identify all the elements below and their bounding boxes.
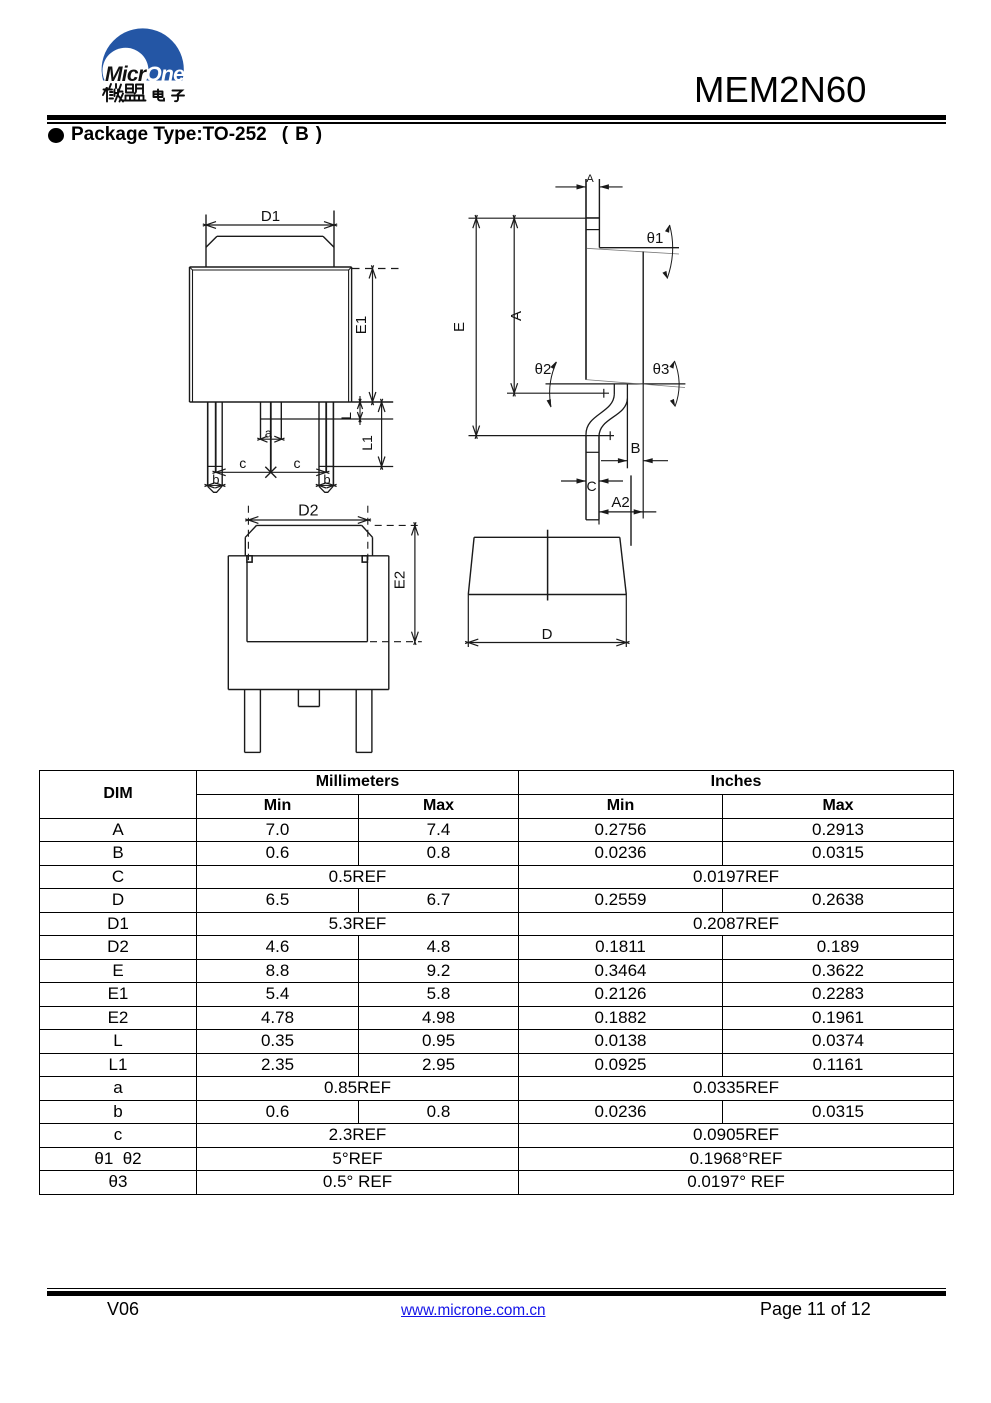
svg-text:b: b	[212, 472, 219, 487]
svg-text:θ2: θ2	[535, 361, 552, 378]
svg-text:B: B	[630, 440, 640, 457]
svg-text:MicrOne: MicrOne	[105, 63, 185, 86]
svg-text:A: A	[508, 311, 525, 321]
svg-text:D2: D2	[298, 503, 319, 520]
svg-text:E: E	[451, 322, 468, 332]
svg-text:D1: D1	[261, 208, 280, 225]
svg-text:a: a	[265, 426, 273, 441]
svg-text:D: D	[542, 626, 553, 643]
svg-text:c: c	[294, 455, 301, 471]
svg-text:c: c	[239, 455, 246, 471]
svg-text:A: A	[586, 173, 594, 185]
svg-text:E2: E2	[392, 571, 409, 589]
svg-text:L: L	[338, 412, 354, 420]
svg-text:C: C	[586, 478, 596, 494]
svg-text:L1: L1	[359, 435, 375, 451]
svg-text:E1: E1	[353, 316, 370, 334]
svg-text:θ1: θ1	[647, 230, 664, 247]
svg-text:A2: A2	[611, 494, 629, 511]
svg-text:b: b	[323, 472, 330, 487]
svg-text:θ3: θ3	[653, 361, 670, 378]
